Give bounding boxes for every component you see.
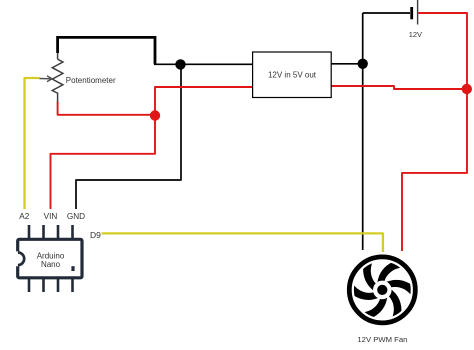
wire GND tap down-left to GND label: [76, 64, 181, 209]
svg-text:D9: D9: [90, 230, 101, 240]
svg-text:A2: A2: [19, 212, 29, 221]
fan hub center: [377, 285, 387, 295]
wire red node up to converter input 12V: [155, 87, 253, 115]
arduino U1 pin1 mark: [71, 266, 74, 271]
arduino U1 body: [18, 239, 82, 277]
wire battery minus vertical down to fan: [362, 13, 364, 250]
wire red node down-left to VIN label: [51, 115, 156, 209]
svg-text:VIN: VIN: [44, 212, 58, 221]
svg-text:Nano: Nano: [41, 260, 61, 269]
fan rotor: [354, 262, 411, 319]
potentiometer R1: [52, 53, 63, 102]
wire converter 5V-out to red rail with jog: [331, 86, 467, 89]
node J1 black junction: [175, 59, 185, 69]
svg-text:12V: 12V: [409, 30, 422, 39]
arduino U1 notch: [10, 251, 25, 266]
potentiometer wiper arrow: [40, 76, 53, 82]
svg-text:Potentiometer: Potentiometer: [66, 76, 116, 85]
node J3 red junction: [462, 84, 472, 94]
wire converter output to battery-minus node: [331, 63, 363, 65]
wire node row to converter input: [154, 63, 253, 65]
fan slots: [340, 247, 425, 333]
node J2 black junction: [358, 59, 368, 69]
battery B1 long plate: [417, 0, 419, 25]
wire D9 yellow to fan PWM: [102, 233, 383, 252]
svg-text:12V in 5V out: 12V in 5V out: [268, 70, 317, 79]
converter U2 12V in 5V out box: [253, 52, 332, 98]
fan outer ring: [349, 257, 415, 323]
wire battery plus to right rail (red): [418, 13, 467, 89]
fan M1 12V PWM fan: [340, 247, 425, 333]
node J4 red junction: [150, 110, 160, 120]
wire battery minus horizontal: [363, 12, 410, 14]
fan hub white ring: [373, 281, 392, 300]
wire red rail down to fan: [402, 89, 467, 251]
wire pot top to node (thick black): [58, 37, 155, 64]
arduino U1 pins top: [29, 225, 73, 240]
wire pot wiper red bottom to VIN net: [58, 102, 155, 115]
arduino U1 pins bottom: [29, 277, 73, 292]
wire pot wiper yellow to A2: [25, 78, 40, 209]
battery B1 short plate: [410, 7, 413, 19]
arduino U1 Nano: [10, 225, 82, 292]
svg-text:12V PWM Fan: 12V PWM Fan: [357, 335, 407, 344]
svg-text:GND: GND: [67, 212, 85, 221]
